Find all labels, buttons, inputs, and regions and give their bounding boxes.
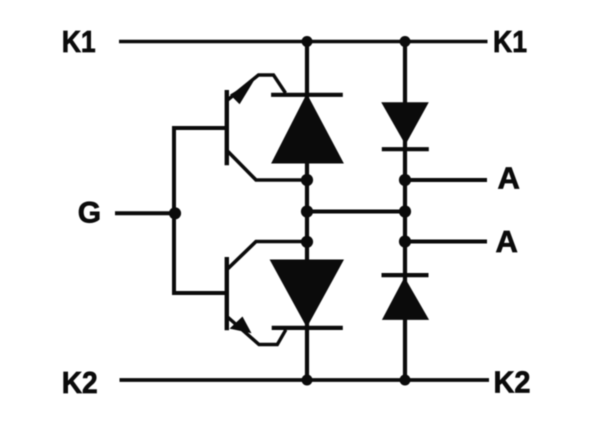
diode D1 bbox=[381, 102, 429, 149]
transistor Q1 bbox=[227, 75, 307, 180]
svg-text:A: A bbox=[496, 224, 518, 259]
junction dot top rail right bbox=[400, 36, 411, 47]
svg-text:K1: K1 bbox=[493, 24, 527, 59]
svg-text:K2: K2 bbox=[62, 365, 98, 400]
svg-text:K2: K2 bbox=[494, 365, 531, 400]
junction dot mid column lower bbox=[301, 236, 313, 248]
wire anode lead A upper bbox=[405, 178, 487, 182]
wire cross link bbox=[307, 210, 405, 214]
junction dot gate node bbox=[169, 207, 181, 219]
wire anode lead A lower bbox=[405, 240, 487, 244]
junction dot top rail mid bbox=[302, 36, 313, 47]
wire gate vertical bus bbox=[174, 128, 227, 293]
thyristor TH2 bbox=[270, 260, 344, 328]
transistor Q2 bbox=[227, 242, 307, 345]
junction dot right column lower bbox=[399, 235, 411, 247]
junction dot mid column middle bbox=[301, 205, 313, 217]
junction dot bottom rail right bbox=[400, 375, 411, 386]
wire middle column bbox=[305, 42, 309, 381]
wire top rail K1 bbox=[119, 40, 488, 44]
wire bottom rail K2 bbox=[120, 378, 490, 382]
junction dot right column upper bbox=[399, 174, 411, 186]
svg-text:A: A bbox=[498, 161, 520, 196]
thyristor TH1 bbox=[271, 94, 344, 164]
svg-text:K1: K1 bbox=[62, 24, 96, 59]
junction dot right column middle bbox=[399, 205, 411, 217]
svg-text:G: G bbox=[78, 196, 101, 229]
diode D2 bbox=[382, 275, 430, 320]
junction dot mid column upper bbox=[301, 174, 313, 186]
junction dot bottom rail mid bbox=[302, 375, 313, 386]
wire gate lead G bbox=[115, 211, 175, 215]
wire right column bbox=[403, 42, 407, 381]
